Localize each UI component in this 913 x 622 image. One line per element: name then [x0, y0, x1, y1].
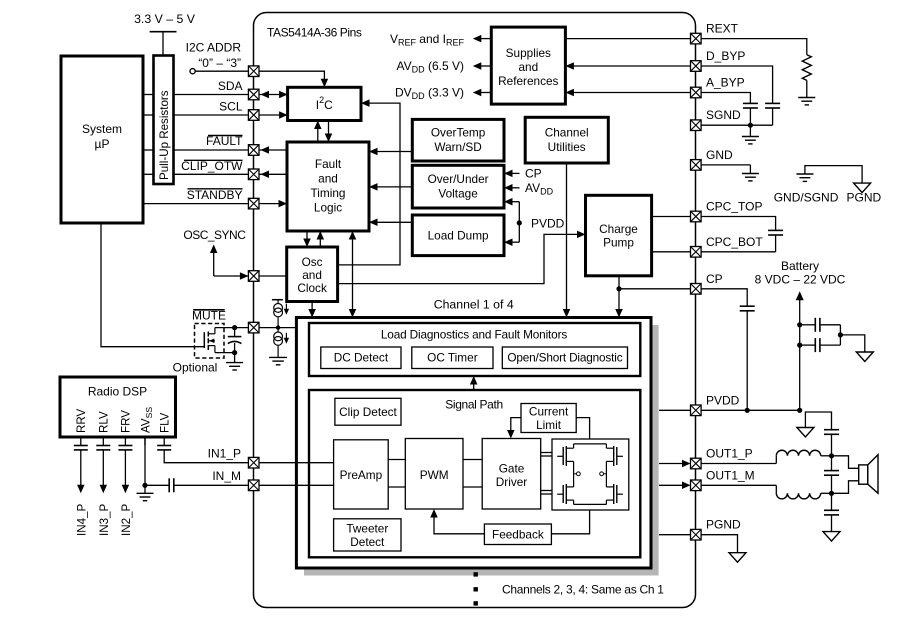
svg-text:Load Dump: Load Dump	[428, 229, 489, 243]
svg-text:OUT1_P: OUT1_P	[706, 447, 753, 461]
svg-text:Pull-Up Resistors: Pull-Up Resistors	[158, 90, 171, 180]
svg-text:VREF and IREF: VREF and IREF	[390, 32, 465, 48]
svg-text:IN3_P: IN3_P	[98, 504, 111, 536]
svg-text:AVDD (6.5 V): AVDD (6.5 V)	[397, 59, 464, 75]
svg-text:Channels 2, 3, 4: Same as Ch 1: Channels 2, 3, 4: Same as Ch 1	[502, 582, 664, 596]
svg-text:Gate: Gate	[499, 462, 525, 476]
svg-text:AVDD: AVDD	[525, 181, 554, 197]
svg-text:GND/SGND: GND/SGND	[774, 190, 839, 204]
svg-text:“0” – “3”: “0” – “3”	[198, 56, 241, 70]
svg-text:RRV: RRV	[75, 408, 88, 433]
svg-text:Charge: Charge	[599, 222, 638, 236]
svg-text:References: References	[498, 74, 558, 88]
svg-text:OUT1_M: OUT1_M	[706, 468, 755, 482]
svg-text:Current: Current	[529, 405, 569, 419]
svg-text:Supplies: Supplies	[506, 46, 551, 60]
svg-text:SDA: SDA	[218, 79, 243, 93]
svg-text:and: and	[318, 172, 338, 186]
svg-text:OSC_SYNC: OSC_SYNC	[183, 228, 246, 242]
svg-text:CPC_TOP: CPC_TOP	[706, 200, 762, 214]
svg-text:8 VDC – 22 VDC: 8 VDC – 22 VDC	[755, 273, 846, 287]
svg-text:GND: GND	[706, 148, 733, 162]
svg-text:DC Detect: DC Detect	[334, 350, 389, 364]
svg-text:IN4_P: IN4_P	[75, 504, 88, 536]
svg-text:RLV: RLV	[98, 411, 111, 433]
svg-text:PVDD: PVDD	[531, 216, 565, 230]
svg-text:Tweeter: Tweeter	[346, 522, 388, 536]
svg-text:CP: CP	[525, 167, 542, 181]
svg-text:Channel: Channel	[545, 126, 589, 140]
svg-text:CPC_BOT: CPC_BOT	[706, 235, 763, 249]
svg-text:3.3 V – 5 V: 3.3 V – 5 V	[134, 12, 196, 26]
svg-text:SCL: SCL	[219, 100, 243, 114]
svg-text:µP: µP	[95, 137, 110, 151]
svg-text:PGND: PGND	[706, 518, 741, 532]
svg-text:Optional: Optional	[173, 361, 218, 375]
svg-text:PGND: PGND	[847, 190, 882, 204]
svg-text:PreAmp: PreAmp	[340, 468, 383, 482]
svg-text:A_BYP: A_BYP	[706, 76, 745, 90]
svg-text:FRV: FRV	[120, 410, 133, 433]
svg-text:STANDBY: STANDBY	[187, 188, 243, 202]
svg-text:Over/Under: Over/Under	[428, 172, 489, 186]
svg-text:Logic: Logic	[314, 201, 342, 215]
svg-text:Timing: Timing	[311, 186, 346, 200]
svg-text:Fault: Fault	[315, 157, 342, 171]
svg-text:Clock: Clock	[297, 281, 327, 295]
svg-text:IN_M: IN_M	[212, 469, 241, 483]
svg-text:Driver: Driver	[496, 475, 528, 489]
svg-text:Clip Detect: Clip Detect	[339, 405, 397, 419]
svg-text:Signal Path: Signal Path	[445, 398, 503, 412]
svg-text:TAS5414A-36 Pins: TAS5414A-36 Pins	[267, 26, 362, 40]
svg-text:Radio DSP: Radio DSP	[88, 385, 147, 399]
svg-text:Warn/SD: Warn/SD	[434, 140, 481, 154]
svg-text:I2C: I2C	[316, 95, 333, 112]
svg-text:SGND: SGND	[706, 108, 741, 122]
svg-text:Pump: Pump	[603, 235, 634, 249]
svg-text:PWM: PWM	[420, 468, 449, 482]
svg-text:DVDD (3.3 V): DVDD (3.3 V)	[395, 86, 464, 102]
svg-text:Voltage: Voltage	[438, 187, 478, 201]
svg-text:OverTemp: OverTemp	[431, 126, 486, 140]
svg-text:IN2_P: IN2_P	[120, 504, 133, 536]
svg-text:Detect: Detect	[350, 535, 385, 549]
svg-text:System: System	[82, 122, 122, 136]
svg-text:FLV: FLV	[159, 412, 172, 433]
svg-text:Feedback: Feedback	[492, 528, 544, 542]
svg-text:I2C ADDR: I2C ADDR	[186, 41, 242, 55]
svg-text:Open/Short Diagnostic: Open/Short Diagnostic	[507, 350, 622, 364]
svg-text:Load Diagnostics and Fault Mon: Load Diagnostics and Fault Monitors	[381, 327, 567, 341]
svg-text:IN1_P: IN1_P	[208, 447, 241, 461]
svg-text:Limit: Limit	[536, 418, 562, 432]
svg-text:Osc: Osc	[302, 255, 323, 269]
svg-text:PVDD: PVDD	[706, 393, 740, 407]
svg-text:and: and	[518, 60, 538, 74]
svg-text:and: and	[302, 268, 322, 282]
svg-text:OC Timer: OC Timer	[427, 350, 478, 364]
svg-text:D_BYP: D_BYP	[706, 49, 745, 63]
svg-text:Channel 1 of 4: Channel 1 of 4	[434, 298, 514, 312]
svg-text:REXT: REXT	[706, 22, 739, 36]
svg-text:Utilities: Utilities	[548, 140, 586, 154]
svg-text:CP: CP	[706, 272, 723, 286]
svg-text:Battery: Battery	[781, 259, 819, 273]
